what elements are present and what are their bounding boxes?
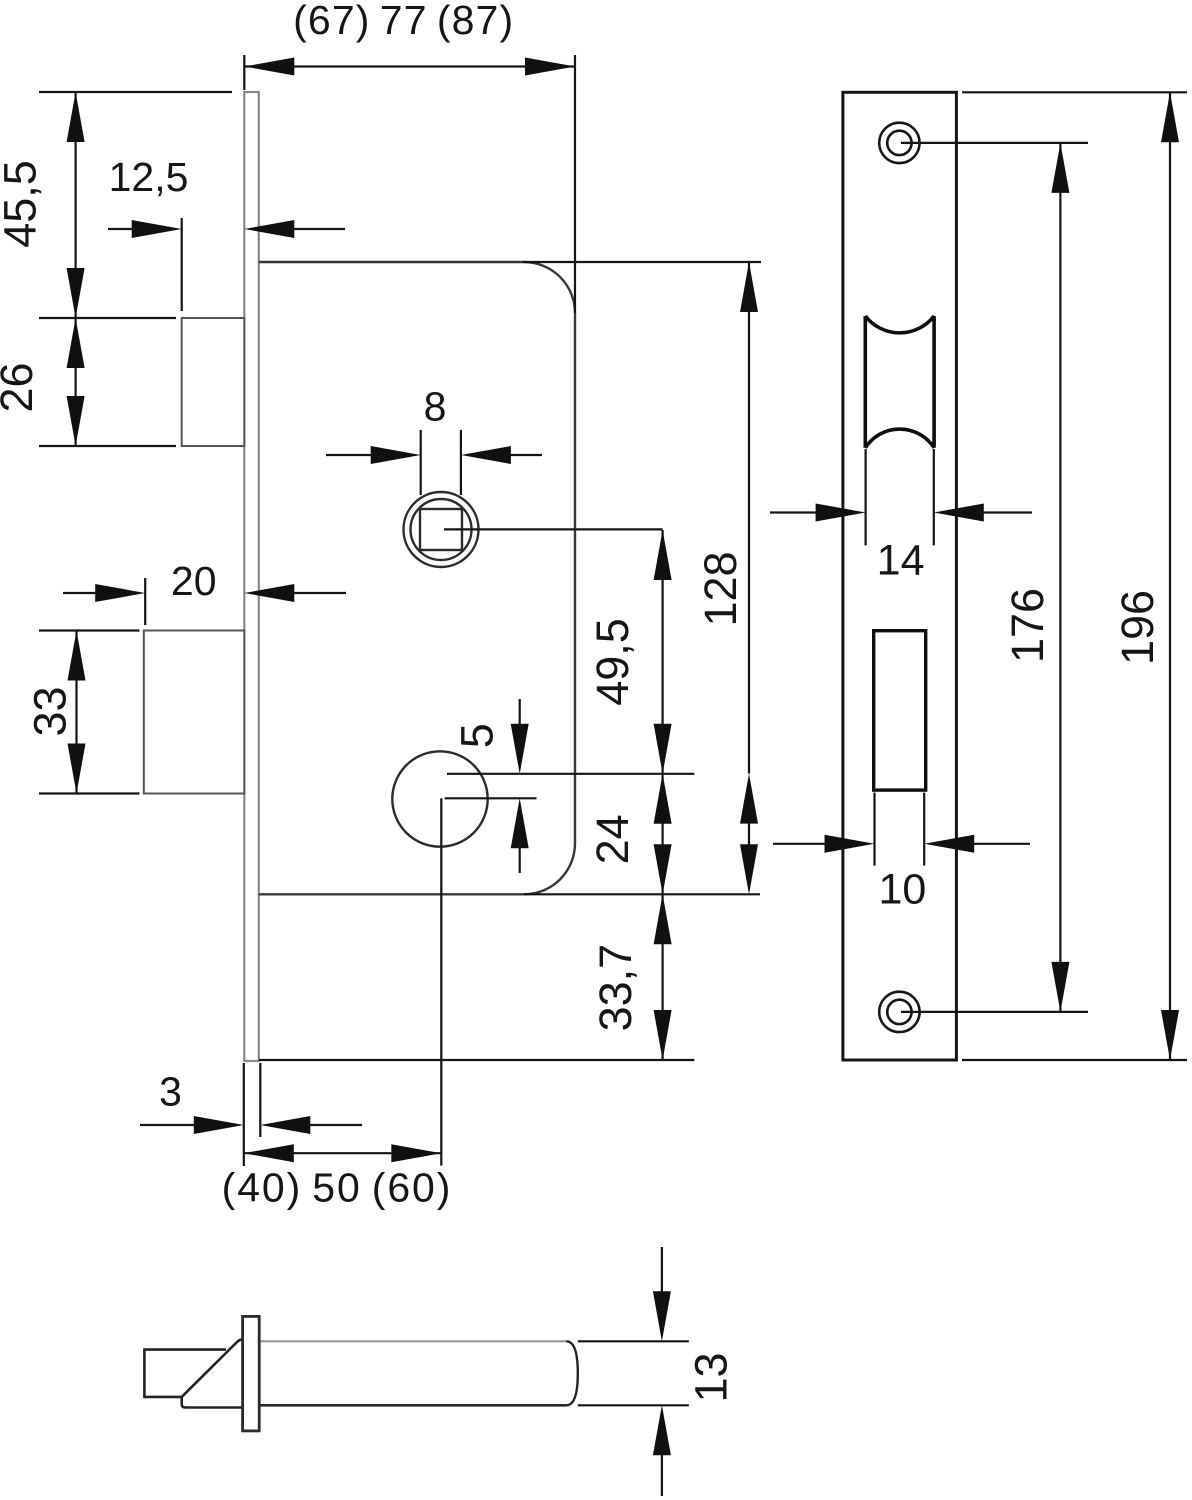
svg-text:24: 24 [587,814,638,864]
svg-text:13: 13 [685,1352,736,1402]
svg-text:176: 176 [1002,588,1053,663]
svg-text:49,5: 49,5 [587,618,638,706]
svg-text:12,5: 12,5 [109,154,189,200]
svg-text:20: 20 [171,558,217,604]
svg-text:3: 3 [159,1069,182,1115]
svg-text:5: 5 [451,723,502,748]
svg-text:45,5: 45,5 [0,160,46,248]
svg-text:33,7: 33,7 [590,944,641,1032]
svg-text:128: 128 [695,551,746,626]
svg-text:(40) 50 (60): (40) 50 (60) [222,1165,453,1211]
svg-text:14: 14 [877,537,925,585]
svg-text:10: 10 [878,866,926,914]
svg-text:33: 33 [25,686,76,736]
svg-text:8: 8 [424,384,447,430]
svg-text:(67) 77 (87): (67) 77 (87) [293,0,514,43]
svg-text:196: 196 [1112,590,1163,665]
svg-text:26: 26 [0,362,42,412]
